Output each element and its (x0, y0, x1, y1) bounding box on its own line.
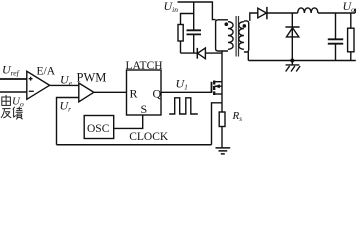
diode snubber clamp (196, 48, 198, 59)
comparator PWM (79, 83, 94, 102)
wire OSC clock to latch S (114, 115, 143, 128)
wire snubber C bottom (193, 35, 195, 53)
svg-text:R: R (130, 87, 138, 101)
wire output top (267, 12, 355, 14)
resistor snubber (178, 25, 183, 42)
svg-text:Q: Q (153, 87, 162, 101)
op-amp E/A error amplifier (27, 71, 50, 99)
latch U1 box (127, 70, 162, 115)
wire PWM output to latch R (94, 91, 127, 93)
svg-text:Uo: Uo (343, 0, 356, 14)
wire sense tap (212, 103, 223, 145)
capacitor snubber (187, 30, 202, 34)
svg-text:Uref: Uref (2, 63, 20, 78)
diode rectifier output (258, 8, 267, 18)
wire output bottom rail (248, 60, 355, 62)
wire Rs to ground (221, 127, 223, 148)
svg-text:Ur: Ur (60, 99, 72, 114)
wire snubber bottom (181, 52, 223, 54)
wire MOSFET source stub (214, 93, 222, 95)
svg-text:U1: U1 (176, 77, 188, 92)
wire feedback input (0, 91, 27, 93)
wire MOSFET drain stub (214, 81, 222, 83)
svg-text:PWM: PWM (77, 71, 107, 85)
resistor Rs (219, 112, 225, 127)
svg-text:LATCH: LATCH (126, 60, 163, 72)
node Uin label (164, 0, 179, 14)
wire latch Q output to MOSFET gate (161, 91, 211, 93)
wire MOSFET body arrow (215, 85, 222, 87)
wire Ur input to PWM (57, 98, 79, 145)
text CLOCK (129, 131, 169, 143)
node Ue label (60, 73, 73, 88)
wire secondary top lead (250, 13, 258, 21)
wire E/A output to PWM (50, 84, 79, 86)
wire source to Rs (221, 103, 223, 112)
node Ur label (60, 99, 72, 114)
transformer T primary winding (216, 20, 234, 51)
node U1 label (176, 77, 188, 92)
capacitor output (335, 13, 337, 61)
text 由Uo (2, 95, 11, 105)
inductor L output (298, 8, 318, 13)
svg-text:Uin: Uin (164, 0, 179, 14)
transformer core (236, 16, 238, 57)
transformer T secondary winding (239, 21, 249, 52)
diode freewheel (285, 26, 299, 28)
svg-text:Uo: Uo (12, 96, 24, 109)
node Uref label (2, 63, 20, 78)
wire primary bottom to drain column (221, 51, 223, 103)
ground output chassis (286, 61, 301, 72)
svg-text:OSC: OSC (87, 123, 110, 135)
transformer polarity dot secondary (243, 24, 247, 28)
wire freewheel branch (291, 13, 293, 61)
wire secondary bottom lead (247, 52, 249, 61)
wire snubber tee (181, 2, 194, 30)
svg-text:Ue: Ue (60, 73, 73, 88)
ground signal (216, 148, 231, 154)
wire current-sense feedback rail (57, 144, 212, 146)
wire snubber R bottom (180, 41, 182, 53)
svg-text:CLOCK: CLOCK (129, 131, 169, 143)
oscillator OSC box (84, 116, 114, 139)
resistor load (350, 13, 352, 61)
wire Uref input (0, 78, 27, 80)
svg-text:Rs: Rs (232, 110, 243, 123)
waveform pulse train (169, 98, 198, 114)
wire Uin top rail (178, 2, 216, 20)
svg-text:S: S (141, 102, 148, 116)
junction dot output ground (290, 59, 294, 63)
transformer polarity dot primary (225, 22, 229, 26)
minus input mark (29, 90, 34, 92)
svg-text:E/A: E/A (37, 66, 56, 78)
node Uo terminal (354, 9, 356, 13)
transistor Q1 MOSFET gate plate (211, 82, 213, 93)
text 反馈 (1, 107, 23, 120)
plus input mark (29, 77, 33, 81)
transistor Q1 MOSFET channel (213, 81, 215, 96)
